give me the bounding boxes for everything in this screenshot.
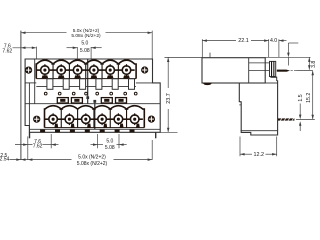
dim bottom overall arrow left: [21, 158, 26, 161]
upper scalloped housing: [36, 60, 136, 79]
solder nub 7: [130, 130, 135, 133]
wire slot 2: [71, 98, 82, 103]
upper cell wall 3: [85, 65, 87, 79]
lower terminal screw 1: [45, 118, 61, 120]
dim bottom 5.0 line right: [117, 144, 127, 146]
front view mid line right: [136, 82, 153, 84]
dim 4.0 arrow: [279, 39, 284, 42]
upper pin stub 6: [129, 79, 135, 90]
dim 1.5 lower arrow: [299, 125, 301, 131]
lower terminal pin mark 1: [54, 124, 58, 128]
lower terminal pin mark 6: [136, 124, 140, 128]
wire slot 1: [57, 98, 68, 103]
dim 22.1 line right: [251, 40, 269, 42]
lower cell wall 2: [77, 110, 79, 128]
svg-text:15.2: 15.2: [306, 93, 312, 103]
dim 12.2 arrow left: [240, 153, 245, 156]
dim 2.54 arrow left outside: [16, 158, 21, 161]
side view face line: [248, 58, 250, 83]
small hole 2: [58, 92, 61, 95]
lower-right mounting screw: [148, 116, 155, 123]
ext line 12.2 left: [239, 137, 241, 157]
lower cell wall 3: [93, 110, 95, 128]
svg-text:4.0: 4.0: [270, 38, 277, 44]
dim 7.6 line: [13, 47, 37, 49]
lower terminal screw 4: [94, 118, 110, 120]
upper terminal screw 3: [69, 69, 85, 71]
lower terminal screw 2: [61, 118, 77, 120]
dim bottom overall line right: [114, 159, 153, 161]
lower housing base line: [45, 127, 145, 129]
ext line side top left: [201, 39, 203, 57]
front view lower deck line: [25, 103, 160, 105]
dim 12.2 arrow right: [272, 153, 277, 156]
lower terminal screw 3: [78, 118, 94, 120]
lower terminal pin mark 4: [103, 124, 107, 128]
upper cell wall 4: [101, 65, 103, 79]
dim top arrow left: [21, 31, 26, 34]
dim 5.0 tail left: [67, 47, 78, 49]
svg-text:7.62: 7.62: [2, 49, 12, 55]
front view left end plate line: [34, 59, 36, 104]
dim 7.6 arrow right: [32, 47, 37, 50]
upper pin centerline: [291, 70, 297, 72]
dim 22.1 arrow right: [264, 39, 269, 42]
side view lower body: [239, 80, 277, 135]
dim 22.1 line left: [202, 40, 236, 42]
leader arrow down: [288, 42, 298, 44]
front view mid line centre: [36, 85, 136, 87]
side view lower inner line: [241, 130, 278, 132]
side view upper body: [202, 58, 265, 83]
small hole 3: [72, 92, 75, 95]
side block tail: [270, 76, 276, 78]
small hole 7: [124, 92, 127, 95]
dim top arrow right: [148, 31, 153, 34]
upper terminal screw 5: [102, 69, 118, 71]
side screw bars: [271, 61, 272, 76]
solder nub 2: [55, 130, 60, 133]
front view centre divider upper: [87, 59, 89, 104]
dim 2.54 arrow right outside: [28, 158, 33, 161]
dim 23.7 arrow bottom: [167, 128, 170, 133]
wire slot 4: [116, 98, 127, 103]
side screw flange block: [270, 61, 276, 76]
dim 3.8 arrow bottom: [308, 65, 311, 70]
upper terminal funnel 5: [107, 75, 114, 78]
side view cavity bottom line: [249, 70, 270, 72]
solder nub 6: [115, 130, 120, 133]
upper pin stub 5: [112, 79, 118, 90]
solder nub 4: [85, 130, 90, 133]
lower solder pin hatched: [278, 118, 294, 120]
ext line top right: [151, 31, 153, 59]
upper cell wall 1: [52, 65, 54, 79]
dim bottom overall arrow right: [148, 158, 153, 161]
small hole 6: [110, 92, 113, 95]
upper pin stub 4: [96, 79, 102, 90]
ext line bottom left body: [27, 136, 29, 159]
dim 23.7 line bottom: [167, 109, 169, 132]
left foot: [29, 132, 31, 138]
dim bottom 7.6 line right: [43, 144, 59, 146]
ext line far left: [20, 31, 22, 160]
upper solder pin: [277, 70, 287, 72]
upper terminal funnel 3: [74, 75, 81, 78]
dim 5.0 arrow left: [73, 46, 78, 49]
dim bottom 7.6 arrow left: [23, 143, 28, 146]
upper terminal screw 2: [53, 69, 69, 71]
small hole 8: [134, 92, 137, 95]
upper pin stub 1: [47, 79, 53, 90]
dim bottom 7.6 arrow right: [51, 143, 56, 146]
dim 15.2 arrow bottom: [311, 115, 314, 120]
upper-right mounting screw: [141, 66, 148, 73]
lower cell wall 4: [109, 110, 111, 128]
dim bottom overall line left: [10, 159, 72, 161]
dim bottom 5.0 arrow right: [119, 143, 124, 146]
side view cavity top line: [249, 62, 270, 64]
front view lower-left inner edge: [28, 83, 30, 132]
dim 3.8 line: [308, 57, 310, 69]
dim 5.0 arrow right: [91, 46, 96, 49]
lower terminal pin mark 2: [71, 124, 75, 128]
right foot: [155, 132, 157, 138]
lower cell wall 1: [60, 110, 62, 128]
svg-text:2.54: 2.54: [0, 157, 9, 163]
dim 5.0x(N/2+2) top line left: [21, 32, 67, 34]
svg-text:23.7: 23.7: [166, 93, 172, 104]
upper cell wall 2: [68, 65, 70, 79]
ext line 7.6 top: [35, 47, 37, 59]
svg-text:1.5: 1.5: [298, 94, 304, 101]
ext line 5.0 left: [76, 47, 78, 60]
side view lower notch: [239, 104, 241, 106]
dim 22.1 arrow left: [202, 39, 207, 42]
side view bottom line extension: [265, 82, 277, 84]
lower terminal screw 6: [127, 118, 143, 120]
dim 7.6 arrow left: [21, 47, 26, 50]
upper terminal screw 6: [118, 69, 134, 71]
svg-text:5.08x (N/2+2): 5.08x (N/2+2): [71, 33, 101, 39]
dim 5.0x(N/2+2) top line right: [106, 32, 153, 34]
upper divider end block: [86, 96, 89, 99]
lower cell wall 5: [126, 110, 128, 128]
ext line bottom right: [151, 140, 153, 160]
front view mid line left: [25, 82, 36, 84]
small hole 4: [85, 92, 88, 95]
svg-text:5.0: 5.0: [106, 139, 113, 145]
front view centre divider lower: [94, 100, 96, 129]
upper terminal screw 4: [86, 69, 102, 71]
upper pin ext line: [296, 70, 313, 72]
upper housing base line: [36, 78, 136, 80]
upper terminal screw 1: [37, 69, 53, 71]
dim 3.8 arrow top: [308, 57, 311, 62]
ext line bottom 5.0 left: [97, 134, 99, 148]
front view bottom rail line: [30, 128, 160, 130]
ext line bottom 5.0 right: [118, 134, 120, 148]
svg-text:7.62: 7.62: [33, 144, 43, 150]
solder nub 3: [70, 130, 75, 133]
svg-text:12.2: 12.2: [254, 152, 265, 158]
ext line 23.7 bottom: [160, 131, 177, 133]
svg-text:5.08: 5.08: [80, 48, 90, 54]
lower divider start block: [93, 100, 96, 103]
dim 1.5 upper arrow: [299, 104, 301, 116]
dim 5.0 tail right: [91, 47, 102, 49]
solder nub 1: [40, 130, 45, 133]
lower terminal pin mark 3: [87, 124, 91, 128]
svg-text:3.8: 3.8: [311, 61, 317, 68]
dim bottom 5.0 line left: [91, 144, 104, 146]
dim 23.7 arrow top: [167, 57, 170, 62]
dim 12.2 line left: [240, 153, 252, 155]
svg-text:5.08: 5.08: [105, 145, 115, 151]
svg-text:5.0: 5.0: [81, 41, 88, 47]
wire slot 3: [101, 98, 112, 103]
upper pin stub 3: [80, 79, 86, 90]
upper terminal funnel 4: [91, 75, 98, 78]
upper cell wall 5: [117, 65, 119, 79]
solder nub 5: [100, 130, 105, 133]
upper terminal funnel 1: [42, 75, 49, 78]
lower terminal screw 5: [110, 118, 126, 120]
dim bottom 5.0 arrow left: [93, 143, 98, 146]
dim 15.2 arrow top: [311, 71, 314, 76]
lower-left mounting screw: [33, 116, 40, 123]
svg-text:5.08x (N/2+2): 5.08x (N/2+2): [77, 161, 108, 167]
front view body outline: [25, 59, 160, 132]
svg-text:5.0x (N/2+2): 5.0x (N/2+2): [78, 154, 106, 160]
dim 4.0 tail: [279, 40, 287, 42]
upper terminal funnel 2: [58, 75, 65, 78]
ext line bottom 7.62: [50, 134, 52, 148]
ext line 4.0 right: [278, 39, 280, 57]
ext line 23.7 top: [165, 56, 202, 58]
side view top tick: [209, 53, 211, 58]
lower terminal pin mark 5: [120, 124, 124, 128]
dim 23.7 line top: [167, 57, 169, 88]
ext line 5.0 right: [90, 47, 92, 60]
lower scalloped housing: [45, 106, 145, 128]
ext line lower pin: [296, 118, 315, 120]
small hole 5: [96, 92, 99, 95]
dim 12.2 line right: [266, 153, 277, 155]
upper terminal funnel 6: [123, 75, 130, 78]
ext line top edge right: [265, 56, 310, 58]
dim 15.2 line: [312, 71, 314, 120]
small hole 1: [44, 92, 47, 95]
side view left foot: [203, 83, 212, 85]
dim bottom 7.6 line left: [15, 144, 33, 146]
svg-text:22.1: 22.1: [238, 38, 249, 44]
upper-left mounting screw: [25, 67, 32, 74]
upper pin stub 2: [63, 79, 69, 90]
ext line 12.2 right: [276, 137, 278, 157]
ext line side 22.1 right: [268, 39, 270, 57]
